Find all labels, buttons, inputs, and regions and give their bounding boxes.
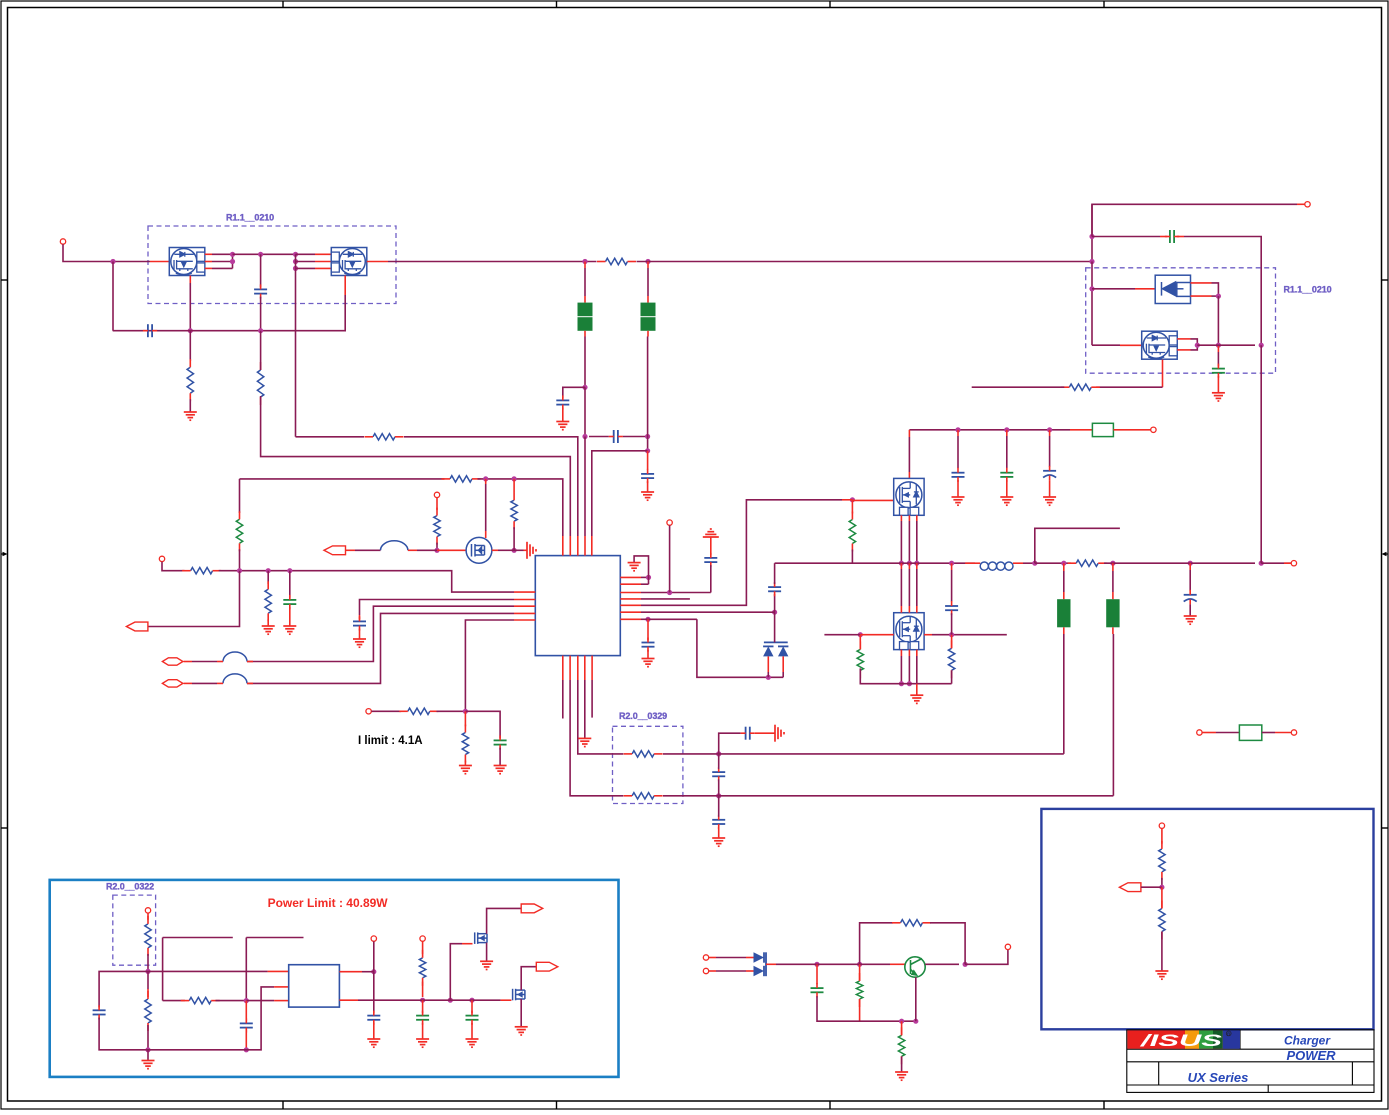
wire res to bottom rail	[860, 668, 896, 683]
node rail rsnub	[949, 561, 954, 566]
wire VIN drop	[63, 244, 150, 261]
wire bm2	[709, 970, 716, 972]
wire tap up filter	[719, 733, 741, 754]
board box battery divider (dark blue)	[1041, 809, 1373, 1029]
wire R2 lead link	[641, 583, 649, 585]
node D1 tie	[1216, 294, 1221, 299]
node BR mid	[1159, 885, 1164, 890]
wire r1 link	[362, 971, 374, 973]
wire snub res bottom	[951, 670, 953, 683]
wire gcap dn	[499, 748, 501, 766]
node s1 tap	[716, 751, 721, 756]
wire wire4 run	[219, 571, 514, 592]
node Q4 s2	[907, 561, 912, 566]
connector arrow OUT2	[536, 962, 558, 971]
ground R-div	[262, 626, 275, 634]
zone tick bottom 4	[1103, 1101, 1105, 1109]
wire F2 cap drop	[647, 451, 649, 470]
wire C to node	[216, 1000, 247, 1002]
wire aux up-right	[1035, 528, 1120, 563]
wire caplink wires	[589, 436, 609, 438]
ferrite bead FB1	[381, 541, 408, 551]
wire top loop	[860, 923, 893, 965]
fuse F2 (green pair)	[641, 303, 656, 317]
wire term to res	[147, 913, 149, 920]
component sense box (green)	[1092, 423, 1113, 436]
wire right vert to rail	[1260, 345, 1262, 563]
node Q6 tie	[1195, 343, 1200, 348]
wire R1 cap drop	[373, 972, 375, 1014]
node E1	[420, 998, 425, 1003]
wire loop right	[930, 923, 965, 965]
wire right vert main	[1091, 204, 1093, 236]
connector arrow VSENSE	[1119, 883, 1141, 892]
ground C-top1	[952, 497, 965, 505]
wire Q2 drain corner	[113, 295, 346, 331]
lead to sense box	[1070, 429, 1092, 431]
ground Q5 source	[910, 695, 923, 703]
wire bottom tie	[896, 683, 952, 685]
wire tap to IC pin5	[592, 451, 648, 536]
capacitor C-green-q2 (v)	[1212, 369, 1225, 373]
wire rdiv gnd	[267, 619, 269, 626]
wire c2 drop	[1006, 430, 1008, 436]
lead coil in	[965, 562, 980, 564]
wire tap link	[644, 618, 697, 620]
wire bm run	[811, 963, 853, 965]
svg-text:Power Limit : 40.89W: Power Limit : 40.89W	[268, 896, 389, 910]
node Q2 tie a	[293, 252, 298, 257]
wire Q1 net resistor link	[189, 331, 191, 361]
resistor R-s1	[632, 751, 654, 757]
capacitor C-pl-mid	[240, 1023, 253, 1027]
wire pin L2 to cap	[360, 600, 515, 616]
lead diode	[1135, 288, 1155, 290]
wire mid-resistor top link	[260, 331, 262, 370]
capacitor C-link	[614, 430, 618, 443]
node cap2 bus	[1089, 234, 1094, 239]
wire E row	[358, 999, 416, 1001]
wire bottom row	[853, 1020, 916, 1022]
wire cap gnd	[1217, 376, 1219, 393]
node bus R left	[582, 259, 587, 264]
svg-text:R1.1__0210: R1.1__0210	[226, 213, 274, 223]
wire bead to gate node	[417, 549, 437, 551]
node Q2 tie b	[293, 259, 298, 264]
wire term to res	[371, 710, 401, 712]
wire Q1 drain to lower bus	[189, 283, 191, 331]
wire Q1 pins to bus tie	[212, 253, 233, 255]
dual diode D3 (right pair)	[754, 952, 765, 962]
wire bar2 down	[1112, 627, 1114, 634]
ground C-green-ilim	[494, 766, 507, 774]
wire Q6 pins tie	[1191, 339, 1198, 350]
resistor R-pl3	[189, 997, 211, 1003]
wire pullup to source	[513, 527, 515, 550]
resistor R-br2	[1159, 909, 1165, 932]
resistor R-rail	[1076, 560, 1098, 566]
wire resistor to gate node	[436, 543, 438, 551]
wire npn through	[925, 963, 959, 965]
node bus-left junction	[110, 259, 115, 264]
node F1 branch	[582, 385, 587, 390]
lead cap	[359, 615, 361, 619]
wire cap2 run	[1092, 236, 1160, 238]
wire gcap to right vert	[1184, 237, 1261, 346]
wire sense2 from IC	[570, 680, 623, 796]
wire res to node	[437, 710, 466, 712]
wire ilim res drop	[464, 711, 466, 726]
zone tick bottom 2	[556, 1101, 558, 1109]
inductor L1	[980, 562, 1013, 570]
wire ic gnd pin	[584, 680, 586, 738]
lead Q4 gate	[842, 499, 852, 501]
mosfet Q4 (dual pack vertical)	[894, 478, 924, 515]
wire Q5 top pins	[900, 563, 902, 569]
wire bus corner up	[1092, 204, 1297, 261]
wire B seg1	[163, 937, 233, 939]
connector arrow net-B	[324, 546, 346, 555]
node Q4 s1	[899, 561, 904, 566]
lead adapter term	[1297, 203, 1305, 205]
wire gnd2	[471, 1023, 473, 1039]
ic U2 power limiter	[289, 965, 340, 1007]
sense bar RS1 (green)	[1057, 599, 1070, 627]
node F2 tap	[645, 448, 650, 453]
terminal VBAT	[1291, 561, 1296, 566]
wire stem to wire4	[239, 549, 241, 570]
dashed variant box R1.1_0210 (left)	[148, 226, 396, 304]
svg-text:R1.1__0210: R1.1__0210	[1284, 285, 1332, 295]
wire term drop	[669, 525, 671, 592]
terminal BM1	[703, 955, 708, 960]
terminal Q3 pull	[434, 492, 439, 497]
wire sense1 from IC	[578, 680, 624, 754]
wire c3 gnd	[1049, 480, 1051, 497]
resistor R-Q6src	[1069, 384, 1091, 390]
wire R-mid to wire2 corner	[261, 396, 571, 536]
ground C-f3	[712, 838, 725, 846]
wire B seg2	[246, 937, 303, 939]
node R1 tie	[646, 575, 651, 580]
lead IC2 pin L3	[274, 1000, 289, 1002]
wire A to left cap	[99, 971, 148, 1007]
wire cap gnd	[359, 629, 361, 639]
terminal BM out	[1005, 944, 1010, 949]
dashed variant box R1.1_0210 (right)	[1086, 268, 1276, 373]
ground C-bl1	[367, 1039, 380, 1047]
wire ic pin B5 stub	[591, 680, 593, 718]
wire Q4 source pins down	[900, 515, 902, 521]
capacitor C-lowbus	[148, 324, 152, 337]
wire src stub	[972, 386, 1065, 388]
capacitor C-top2 (green)	[1000, 473, 1013, 477]
ground U1 pad	[578, 738, 591, 746]
wire E cont	[416, 999, 444, 1001]
ground C-R7	[642, 659, 655, 667]
dashed variant box R2.0_0322	[113, 895, 156, 965]
capacitor C-top3 (polarized)	[1043, 471, 1056, 478]
node Q2r rail	[1216, 343, 1221, 348]
wire F2 to tap	[647, 437, 649, 451]
node E2	[448, 998, 453, 1003]
wire bm1	[709, 957, 716, 959]
resistor R-wire4	[191, 568, 213, 574]
wire B seg2 drop	[245, 938, 247, 1001]
ic U1 bottom pin leads	[562, 656, 564, 680]
node wire3 a	[483, 476, 488, 481]
pin lead Q2 right / bus out	[367, 261, 388, 263]
node npn right	[963, 962, 968, 967]
zone tick right 2	[1382, 827, 1389, 829]
wire bar2 stub	[1112, 563, 1114, 571]
wire diode gate run	[1092, 288, 1135, 290]
wire rgreen top	[851, 500, 853, 514]
capacitor C-mid (in dashed box)	[254, 289, 267, 293]
dual schottky D2 (up pair)	[764, 641, 788, 643]
resistor R-wire3	[450, 476, 472, 482]
terminal E pull	[420, 936, 425, 941]
pin lead Q2 drain down	[344, 276, 346, 296]
resistor R-s2	[632, 793, 654, 799]
zone tick top 2	[556, 1, 558, 8]
lead arrow2	[184, 661, 192, 663]
wire gcap drop	[289, 571, 291, 598]
resistor R-green-Q4gate	[849, 520, 855, 544]
wire A to IC2	[148, 970, 268, 972]
node toprail c3	[1047, 427, 1052, 432]
wire pin R4 stub	[641, 598, 690, 600]
wire res to node	[147, 954, 149, 972]
wire terminal to resistor	[436, 498, 438, 510]
resistor R-pl1	[145, 924, 151, 948]
resistor R-snub	[948, 648, 954, 670]
title block outer	[1127, 1030, 1374, 1093]
wire cap to gnd	[562, 408, 564, 422]
capacitor C-bm (green)	[811, 988, 824, 992]
node lower bus at Q1	[188, 328, 193, 333]
wire Q8 source gnd	[486, 943, 488, 962]
ground Q1 net	[184, 412, 197, 420]
node C	[244, 998, 249, 1003]
node bm b1	[899, 1019, 904, 1024]
wire bus to corner right	[637, 261, 1093, 263]
wire pin R7 net	[641, 618, 644, 620]
wire to gnd	[464, 761, 466, 766]
zone tick bottom 3	[829, 1101, 831, 1109]
lead IC2 pin R1	[339, 971, 362, 973]
node bar1	[1061, 561, 1066, 566]
svg-text:I limit : 4.1A: I limit : 4.1A	[358, 735, 423, 747]
lead Q5 gate	[852, 634, 860, 636]
wire F1 down	[584, 331, 586, 337]
node R1 out	[371, 969, 376, 974]
wire center pin to gnd	[916, 684, 918, 696]
node lower bus mid	[258, 328, 263, 333]
power arrow right Q3	[527, 542, 536, 559]
node bm cap	[814, 962, 819, 967]
wire snub res top	[951, 635, 953, 649]
wire Q5 source pins down	[900, 650, 902, 656]
wire pin L4 net	[247, 613, 514, 683]
resistor R-green-Q5	[857, 649, 863, 670]
pin lead Q1 left	[150, 261, 169, 263]
wire C cap drop	[245, 1001, 247, 1022]
lead bead2	[217, 661, 223, 663]
wire R7 cap drop	[647, 619, 649, 640]
node R6 diode tap	[772, 610, 777, 615]
lead diodes	[746, 957, 754, 959]
node Q5 gate	[858, 632, 863, 637]
node caplink right	[645, 434, 650, 439]
resistor R-loop	[901, 920, 923, 926]
center arrow right edge	[1382, 552, 1389, 556]
ground Q8	[480, 961, 493, 969]
zone tick top 3	[829, 1, 831, 8]
wire gnd	[422, 1023, 424, 1039]
wire phase rail	[775, 562, 975, 564]
lead gate into Q3	[437, 549, 466, 551]
capacitor C-out (polarized)	[1184, 595, 1197, 602]
lead IC2 pin L1	[268, 970, 289, 972]
lead IC2 pin R2	[339, 999, 358, 1001]
wire node to gnd	[147, 1050, 149, 1061]
wire node link	[511, 549, 524, 551]
wire wire3 stem down	[239, 479, 241, 513]
ground BR	[1155, 971, 1168, 979]
wire Q5 gate stub	[824, 634, 852, 636]
zone tick bottom 1	[282, 1101, 284, 1109]
wire Q2 pins from tie	[296, 253, 316, 255]
wire R6 tap up to cap	[774, 594, 776, 612]
resistor R-ilim-gnd	[462, 733, 468, 755]
wire res2 links	[901, 1021, 903, 1035]
node caplink left	[582, 434, 587, 439]
capacitor C-green-ilim	[494, 740, 507, 744]
lead arrow3	[184, 682, 192, 684]
wire diode out	[766, 963, 776, 965]
wire cap to main rail corner	[774, 563, 776, 584]
wire R6 tap to diode bar	[774, 612, 776, 642]
wire pins R1R2 tie	[641, 576, 649, 578]
power arrow up VREG	[703, 529, 719, 537]
wire s2 to bar2	[712, 795, 1113, 797]
node snub mid	[949, 632, 954, 637]
wire rgreen bottom	[851, 550, 853, 564]
pin leads Q2 left	[315, 253, 331, 255]
wire rdiv drop	[267, 571, 269, 584]
capacitor C-green-div	[283, 600, 296, 604]
component sense box 2 (green)	[1197, 730, 1202, 735]
node D	[244, 1047, 249, 1052]
capacitor C-byp1	[556, 400, 569, 404]
wire tie to rail	[1197, 344, 1255, 346]
center arrow left edge	[1, 552, 8, 556]
node wire4 b	[266, 568, 271, 573]
wire npn emitter down	[915, 977, 917, 1021]
wire cap down corner	[99, 1018, 142, 1050]
node Q1 tie a	[230, 252, 235, 257]
wire node to gcap corner	[465, 711, 500, 738]
connector arrow OUT1	[521, 904, 543, 913]
wire E3 cap drop	[471, 1000, 473, 1013]
node ilim	[463, 709, 468, 714]
wire c1 gnd	[957, 480, 959, 497]
wire snub link	[951, 613, 953, 635]
capacitor C-R7	[642, 643, 655, 647]
capacitor C-R3	[704, 558, 717, 562]
wire cap drop	[816, 964, 818, 984]
wire pin R3 net	[641, 592, 711, 594]
lead Q6 right pins	[1177, 338, 1190, 340]
wire to ground	[189, 399, 191, 412]
ground R-ilim-gnd	[459, 766, 472, 774]
lead bead out	[408, 549, 417, 551]
wire c1 drop	[957, 430, 959, 436]
wire s1 to bar1	[712, 753, 1064, 755]
ground C-top2	[1000, 497, 1013, 505]
capacitor C-R6	[768, 587, 781, 591]
wire bus drop F1	[584, 262, 586, 269]
wire pin L5 to ilim node	[465, 620, 514, 711]
ic U1 left pin leads	[514, 591, 535, 593]
resistor R-green-stem	[236, 519, 242, 543]
resistor R-br1	[1159, 849, 1165, 872]
zone tick top 4	[1103, 1, 1105, 8]
wire F2 down	[647, 331, 649, 337]
wire cap to R3 wire	[710, 565, 712, 592]
capacitor C-top1	[952, 473, 965, 477]
wire br2 links	[1161, 887, 1163, 908]
svg-text:R2.0__0322: R2.0__0322	[106, 882, 154, 892]
resistor R-bl2	[419, 958, 425, 978]
node toprail c1	[955, 427, 960, 432]
wire ic pin B1 stub	[562, 680, 564, 719]
lead D1 top pin	[1191, 282, 1212, 284]
resistor R-wire1	[373, 434, 395, 440]
wire pol cap tap drop	[1189, 563, 1191, 570]
wire bar1 stub	[1063, 563, 1065, 571]
node Q2 tie c	[293, 266, 298, 271]
wire terminal drop	[162, 562, 185, 571]
wire to gnd	[647, 481, 649, 492]
wire Q2 tie vertical down	[295, 254, 297, 268]
ic U1 charger controller	[535, 556, 620, 656]
capacitor C-f1 (h)	[746, 727, 750, 740]
capacitor C-L2	[353, 621, 366, 625]
terminal ADP+	[1305, 202, 1310, 207]
wire cap gnd	[373, 1023, 375, 1039]
wire source run left	[1096, 386, 1162, 388]
wire bead3 to arrow	[192, 682, 217, 684]
mosfet Q6 (dual pack)	[1142, 331, 1178, 359]
terminal BM2	[703, 968, 708, 973]
ground BM	[895, 1072, 908, 1080]
wire pin R6 net	[641, 611, 768, 613]
capacitor C-f2 between	[712, 772, 725, 776]
node E3	[469, 998, 474, 1003]
wire f2 links	[718, 754, 720, 769]
node Q3 source	[511, 548, 516, 553]
mosfet Q8 small	[475, 932, 487, 944]
wire Q9 source gnd	[520, 999, 522, 1027]
node Q1 tie b	[230, 259, 235, 264]
wire Q3 source right	[492, 549, 498, 551]
ferrite bead FB3	[223, 674, 247, 684]
mosfet Q3 (single, circle)	[466, 537, 492, 563]
wire snub vert top	[951, 563, 953, 570]
wire D row	[142, 987, 274, 1050]
